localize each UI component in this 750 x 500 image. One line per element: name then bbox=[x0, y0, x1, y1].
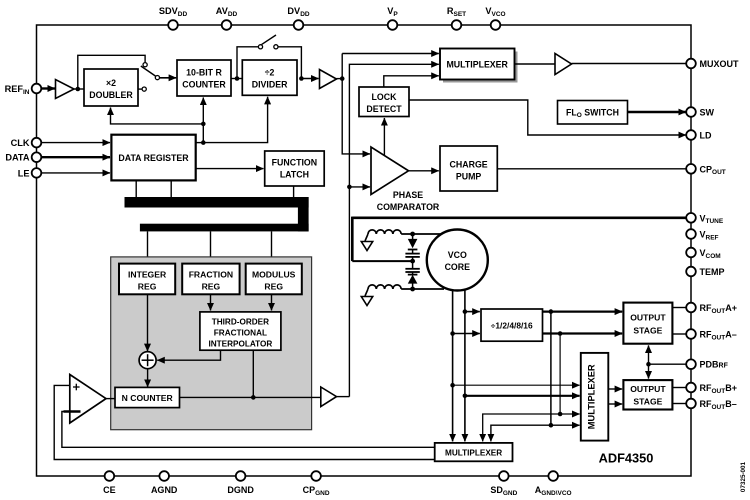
wire VCO output right vertical bbox=[464, 290, 466, 442]
node R counter output junction bbox=[235, 76, 240, 81]
pin VTUNE bbox=[686, 213, 724, 225]
svg-text:MULTIPLEXER: MULTIPLEXER bbox=[587, 364, 597, 429]
wire N feedback vertical bbox=[349, 64, 438, 396]
node N feedback junction bbox=[347, 185, 352, 190]
pin SDGND bbox=[490, 471, 517, 497]
wire PDBRF to output stage A bbox=[648, 345, 650, 364]
node PDBRF junction bbox=[646, 362, 651, 367]
wire data register to bus left bbox=[135, 180, 137, 198]
pin VVCO bbox=[485, 6, 505, 30]
wire PDBRF pin line bbox=[649, 363, 687, 365]
switch SW1 lever bbox=[141, 66, 156, 76]
wire integer reg to adder bbox=[147, 294, 149, 351]
wire clock distribution vertical bbox=[202, 124, 204, 143]
node clock distribution lower junction bbox=[201, 140, 206, 145]
svg-text:MUXOUT: MUXOUT bbox=[700, 59, 739, 69]
svg-text:LD: LD bbox=[700, 131, 712, 141]
svg-text:÷2: ÷2 bbox=[265, 68, 275, 78]
node varactor bottom junction bbox=[410, 287, 415, 292]
bus data bus right connector bbox=[298, 197, 309, 231]
pin CPOUT bbox=[686, 164, 726, 176]
wire switch pole to R counter bbox=[160, 77, 176, 79]
node divider output junction bbox=[299, 76, 304, 81]
pin CLK bbox=[11, 138, 42, 148]
pin AVDD bbox=[216, 6, 238, 30]
wire output stage B to RFOUTB+ pin bbox=[672, 387, 686, 389]
pin RSET bbox=[447, 6, 466, 30]
svg-text:FLO SWITCH: FLO SWITCH bbox=[566, 108, 619, 120]
wire VCO to divider input upper bbox=[465, 311, 480, 313]
divider div2 DIVIDER block bbox=[242, 60, 297, 95]
svg-text:DATA REGISTER: DATA REGISTER bbox=[118, 153, 189, 163]
wire N feedback to phase comparator bbox=[349, 186, 370, 188]
wire VCO output left vertical bbox=[452, 290, 454, 442]
pin DGND bbox=[227, 471, 254, 495]
svg-text:DIVIDER: DIVIDER bbox=[252, 80, 288, 90]
wire fraction reg to interpolator bbox=[210, 294, 212, 310]
wire buffer A5 to N feedback vertical bbox=[337, 396, 350, 398]
amplifier OUTPUT STAGE B block bbox=[623, 380, 672, 409]
svg-text:CORE: CORE bbox=[445, 262, 471, 272]
wire DATA pin to data register bbox=[41, 156, 110, 158]
svg-text:COMPARATOR: COMPARATOR bbox=[377, 202, 440, 212]
switch SW2 contact right bbox=[274, 45, 278, 49]
node VCO output junction lower bbox=[450, 331, 455, 336]
wire junction to doubler bottom bbox=[111, 108, 204, 124]
wire divided feedback vertical right bbox=[559, 334, 561, 415]
wire divided feedback to bottom multiplexer input 3 bbox=[483, 414, 560, 441]
wire REFIN pin to input buffer bbox=[41, 87, 55, 89]
wire divider bypass feedback bbox=[237, 47, 258, 79]
svg-text:THIRD-ORDER: THIRD-ORDER bbox=[212, 317, 269, 326]
svg-text:ADF4350: ADF4350 bbox=[599, 451, 654, 466]
wire output stage A to RFOUTA- pin bbox=[672, 333, 686, 335]
svg-text:DETECT: DETECT bbox=[366, 104, 402, 114]
wire phase comparator to charge pump bbox=[409, 170, 439, 172]
svg-text:INTEGER: INTEGER bbox=[128, 269, 167, 279]
wire phase comparator to lock detect bbox=[383, 118, 385, 156]
op-amp RF input comparator A4 bbox=[70, 375, 106, 424]
wire function latch to bus bbox=[293, 186, 295, 198]
wire VTUNE to varactor center node bbox=[352, 260, 412, 262]
pin RFOUTA- bbox=[686, 329, 737, 341]
pin TEMP bbox=[686, 267, 724, 277]
svg-text:STAGE: STAGE bbox=[633, 326, 662, 336]
label plus input bbox=[73, 384, 80, 391]
pin DATA bbox=[5, 152, 41, 162]
wire lock detect to LD pin bbox=[409, 100, 686, 135]
node divider output junction lower bbox=[558, 331, 563, 336]
pin VCOM bbox=[686, 248, 720, 260]
wire reference bus vertical to phase comparator bbox=[342, 54, 370, 154]
svg-text:10-BIT R: 10-BIT R bbox=[186, 68, 222, 78]
pin CPGND bbox=[303, 471, 330, 497]
op-amp phase comparator U2 bbox=[371, 147, 409, 195]
wire VCO direct to multiplexer input 1 bbox=[453, 384, 580, 386]
wire divided feedback vertical left bbox=[550, 312, 552, 426]
svg-text:FRACTION: FRACTION bbox=[189, 269, 233, 279]
wire MUX2 to output stage B upper bbox=[608, 388, 622, 390]
wire N counter output bbox=[180, 396, 321, 398]
wire buffer output to doubler bbox=[74, 88, 85, 90]
inductor L1 top coil bbox=[368, 230, 401, 234]
node VCO direct junction left bbox=[450, 383, 455, 388]
divider div 1 2 4 8 16 block bbox=[481, 309, 543, 341]
amplifier OUTPUT STAGE A block bbox=[623, 303, 672, 344]
pin VREF bbox=[686, 229, 718, 241]
wire divided feedback to bottom multiplexer input 4 bbox=[491, 425, 551, 441]
svg-text:N COUNTER: N COUNTER bbox=[122, 393, 174, 403]
svg-text:FUNCTION: FUNCTION bbox=[272, 157, 317, 167]
node divider output junction upper bbox=[549, 309, 554, 314]
ground symbol bottom bbox=[361, 297, 372, 306]
wire L1 to top varactor node bbox=[401, 233, 444, 235]
oscillator VCO CORE bbox=[427, 230, 488, 291]
svg-text:LE: LE bbox=[18, 168, 30, 178]
wire divided feedback to multiplexer input 4 bbox=[551, 424, 580, 426]
svg-text:DGND: DGND bbox=[227, 485, 254, 495]
diode D1 varactor down bbox=[408, 239, 418, 250]
svg-text:CHARGE: CHARGE bbox=[450, 160, 488, 170]
latch FUNCTION LATCH block bbox=[265, 151, 325, 186]
wire junction to R counter bottom bbox=[202, 98, 204, 124]
wire MUX2 to output stage B lower bbox=[608, 403, 622, 405]
wire VTUNE left leg bbox=[351, 217, 354, 262]
wire interpolator to adder bbox=[157, 350, 220, 360]
pin RFOUTA+ bbox=[686, 303, 737, 315]
pin RFOUTB+ bbox=[686, 383, 737, 395]
svg-text:INTERPOLATOR: INTERPOLATOR bbox=[208, 339, 272, 348]
wire interpolator to N counter output line bbox=[252, 350, 254, 397]
wire multiplexer to opamp plus bbox=[54, 385, 435, 459]
counter N COUNTER block bbox=[115, 387, 180, 407]
node clock distribution upper junction bbox=[201, 122, 206, 127]
interpolator THIRD-ORDER FRACTIONAL INTERPOLATOR block bbox=[200, 312, 281, 350]
wire R counter to divider bbox=[231, 78, 242, 80]
wire buffer A2 output bbox=[337, 78, 343, 80]
switch SW1 doubler select contact doubler bbox=[142, 87, 146, 91]
pin SW bbox=[686, 107, 714, 117]
wire FLo switch to SW pin bbox=[628, 111, 686, 113]
node varactor center junction bbox=[410, 259, 415, 264]
svg-text:VCO: VCO bbox=[448, 250, 467, 260]
svg-text:REG: REG bbox=[138, 281, 157, 291]
wire bus to integer reg bbox=[147, 231, 149, 264]
wire varactor stack vertical segments bbox=[412, 234, 414, 289]
pin SDVDD bbox=[159, 6, 188, 30]
svg-text:AGND: AGND bbox=[151, 485, 178, 495]
wire charge pump to CPOUT pin bbox=[497, 168, 686, 170]
label PHASE COMPARATOR bbox=[377, 190, 440, 212]
wire L2 to ground bbox=[365, 289, 368, 296]
svg-text:REG: REG bbox=[202, 281, 221, 291]
switch SW2 lever bbox=[262, 35, 277, 45]
counter 10-BIT R COUNTER block bbox=[177, 60, 231, 96]
wire buffer to MUXOUT pin bbox=[572, 63, 687, 65]
pin LD bbox=[686, 130, 712, 140]
pin AGNDVCO bbox=[535, 471, 572, 497]
register FRACTION REG block bbox=[182, 264, 239, 295]
register INTEGER REG block bbox=[119, 264, 175, 295]
pin CE bbox=[103, 471, 116, 495]
label minus input bbox=[64, 410, 81, 413]
wire LE pin to data register bbox=[41, 172, 110, 174]
switch SW1 doubler select contact bypass bbox=[143, 63, 147, 67]
pin LE bbox=[18, 168, 42, 178]
node divided feedback junction left bbox=[549, 423, 554, 428]
op-amp feedback buffer A5 bbox=[321, 387, 337, 407]
svg-text:OUTPUT: OUTPUT bbox=[630, 313, 666, 323]
wire doubler bypass feedback bbox=[78, 55, 145, 89]
wire doubler output stub bbox=[138, 88, 142, 90]
multiplexer MUX3 feedback block bbox=[435, 443, 513, 461]
wire output stage B to RFOUTB- pin bbox=[672, 403, 686, 405]
svg-text:PHASE: PHASE bbox=[393, 190, 423, 200]
svg-text:SW: SW bbox=[700, 108, 715, 118]
wire VCO to divider input lower bbox=[453, 333, 480, 335]
wire data register clock distribution stub bbox=[196, 142, 204, 144]
lock detect block bbox=[359, 87, 409, 117]
svg-text:CLK: CLK bbox=[11, 138, 30, 148]
pin PDBRF bbox=[686, 359, 728, 369]
svg-text:LATCH: LATCH bbox=[280, 169, 309, 179]
wire adder to N counter bbox=[147, 369, 149, 387]
pin AGND bbox=[151, 471, 178, 495]
node interpolator feedback junction bbox=[251, 395, 256, 400]
node buffer A2 output junction bbox=[340, 76, 345, 81]
wire divider output lower to output stage A bbox=[543, 332, 623, 334]
wire bottom varactor node to VCO bbox=[401, 288, 444, 290]
register DATA REGISTER block bbox=[111, 135, 195, 181]
svg-text:OUTPUT: OUTPUT bbox=[630, 384, 666, 394]
wire bus to modulus reg bbox=[271, 231, 273, 264]
wire divided feedback to multiplexer input 3 bbox=[560, 413, 580, 415]
diode D2 varactor up bbox=[408, 275, 418, 284]
wire divider output to buffer bbox=[301, 78, 318, 80]
resistor x2 DOUBLER block bbox=[84, 69, 138, 106]
svg-text:STAGE: STAGE bbox=[633, 396, 662, 406]
adder summing node bbox=[139, 352, 156, 369]
wire modulus reg to interpolator bbox=[271, 294, 273, 310]
svg-text:MULTIPLEXER: MULTIPLEXER bbox=[446, 59, 508, 69]
wire CLK pin to data register bbox=[41, 142, 110, 144]
FLo SWITCH block bbox=[558, 101, 628, 125]
switch SW2 contact left bbox=[258, 45, 262, 49]
wire multiplexer to opamp minus bbox=[62, 412, 435, 448]
wire data register to bus right bbox=[170, 180, 172, 198]
svg-text:07325-001: 07325-001 bbox=[740, 461, 747, 492]
wire junction to divider bottom bbox=[203, 97, 267, 143]
wire lock detect to multiplexer input 3 bbox=[384, 76, 439, 87]
pin REFIN bbox=[5, 84, 42, 96]
wire bus to fraction reg bbox=[210, 231, 212, 264]
charge pump block bbox=[440, 146, 497, 191]
node VCO output junction upper bbox=[463, 309, 468, 314]
register MODULUS REG block bbox=[246, 264, 302, 295]
pin MUXOUT bbox=[686, 59, 739, 69]
inductor L2 bottom coil bbox=[368, 285, 401, 289]
svg-text:COUNTER: COUNTER bbox=[182, 80, 226, 90]
node varactor top junction bbox=[410, 232, 415, 237]
wire reference to multiplexer input 1 bbox=[342, 53, 439, 55]
capacitor C2 bbox=[405, 269, 419, 272]
svg-text:MODULUS: MODULUS bbox=[252, 269, 296, 279]
op-amp MUXOUT buffer A3 bbox=[555, 54, 572, 75]
svg-text:REG: REG bbox=[264, 281, 283, 291]
ground symbol top bbox=[361, 242, 372, 251]
svg-text:DOUBLER: DOUBLER bbox=[89, 90, 133, 100]
chip boundary U1 ADF4350 bbox=[37, 25, 692, 476]
wire data register to function latch bbox=[196, 168, 264, 170]
svg-text:DATA: DATA bbox=[5, 153, 30, 163]
svg-text:PUMP: PUMP bbox=[456, 172, 482, 182]
pin VP bbox=[387, 6, 398, 30]
node divided feedback junction right bbox=[558, 412, 563, 417]
wire divider bypass feedback right bbox=[278, 47, 301, 79]
svg-text:FRACTIONAL: FRACTIONAL bbox=[214, 328, 267, 337]
wire L1 to ground bbox=[365, 234, 368, 241]
bus data bus lower bar bbox=[140, 224, 309, 232]
svg-text:÷1/2/4/8/16: ÷1/2/4/8/16 bbox=[491, 320, 533, 330]
wire opamp to N counter bbox=[106, 398, 115, 400]
wire multiplexer to output buffer bbox=[515, 63, 556, 65]
svg-text:LOCK: LOCK bbox=[372, 92, 398, 102]
svg-text:TEMP: TEMP bbox=[700, 267, 725, 277]
pin RFOUTB- bbox=[686, 399, 737, 411]
switch SW1 pole contact bbox=[155, 76, 159, 80]
svg-text:CE: CE bbox=[103, 485, 116, 495]
node buffer output junction bbox=[76, 87, 81, 92]
wire VCO direct to multiplexer input 2 bbox=[465, 395, 580, 397]
svg-text:MULTIPLEXER: MULTIPLEXER bbox=[445, 448, 502, 457]
bus data bus upper bar bbox=[125, 197, 309, 208]
wire divider output upper to output stage A bbox=[543, 310, 623, 312]
node VCO direct junction right bbox=[463, 394, 468, 399]
multiplexer MUX1 block bbox=[440, 49, 518, 83]
multiplexer MUX2 vertical block bbox=[581, 353, 609, 441]
wire VTUNE thick line bbox=[352, 217, 686, 220]
op-amp input buffer A1 bbox=[56, 80, 75, 99]
sigma-delta modulator shaded region bbox=[111, 257, 312, 430]
wire PDBRF to output stage B bbox=[648, 364, 650, 378]
svg-text:×2: ×2 bbox=[106, 78, 116, 88]
wire output stage A to RFOUTA+ pin bbox=[672, 307, 686, 309]
op-amp reference buffer A2 bbox=[320, 70, 337, 89]
capacitor C1 bbox=[405, 254, 419, 257]
pin DVDD bbox=[287, 6, 309, 30]
